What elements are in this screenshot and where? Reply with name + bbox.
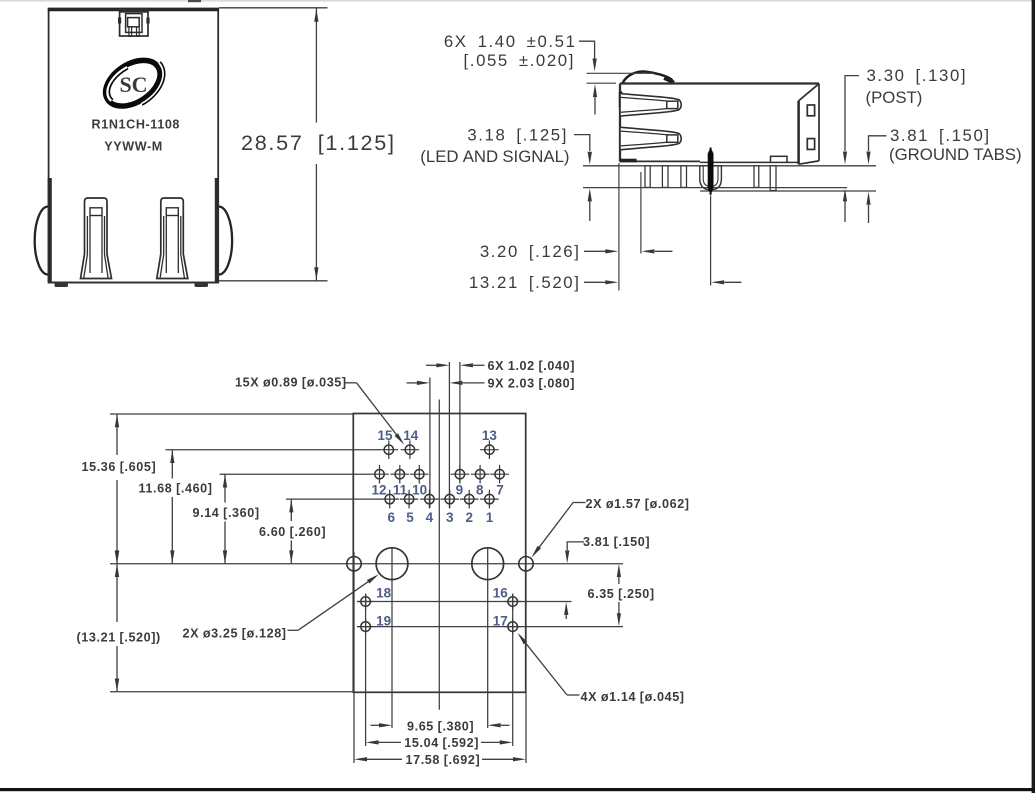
svg-text:YYWW-M: YYWW-M — [104, 139, 163, 153]
dim 6X 1.40 leader and arrows — [579, 41, 595, 58]
front view shield side ear right (arc) — [218, 207, 232, 275]
side view pin 3 — [681, 166, 687, 188]
front view shield side ear left (arc) — [35, 207, 49, 275]
side view body outline — [620, 84, 819, 165]
dim 13.21 arrows — [584, 281, 606, 283]
svg-text:6.60 [.260]: 6.60 [.260] — [259, 525, 326, 539]
svg-text:15.04 [.592]: 15.04 [.592] — [404, 736, 479, 750]
svg-text:17.58 [.692]: 17.58 [.692] — [406, 753, 481, 767]
row 19-17 line — [357, 626, 623, 628]
svg-text:(POST): (POST) — [866, 88, 923, 107]
pin16-17 column line — [512, 595, 514, 747]
svg-text:3.81 [.150]: 3.81 [.150] — [583, 535, 650, 549]
svg-text:19: 19 — [376, 614, 391, 629]
svg-text:3.20 [.126]: 3.20 [.126] — [480, 242, 581, 261]
front view top latch detail — [120, 9, 148, 37]
pin hole 16 (1.14) — [508, 597, 518, 607]
frame top edge line — [0, 0, 1035, 2]
dim 6X 1.40 lower arrow — [593, 84, 597, 97]
dim 3.30 lower arrow — [843, 188, 847, 201]
side view pin end line — [583, 187, 847, 189]
svg-text:6.35 [.250]: 6.35 [.250] — [588, 587, 655, 601]
side view shield top bump — [623, 72, 674, 84]
front view bottom edge — [49, 282, 219, 284]
side view ground tab pin — [770, 166, 776, 191]
dim 9X 2.03 arrows — [407, 382, 418, 384]
side view black post — [708, 148, 714, 195]
svg-text:3.30 [.130]: 3.30 [.130] — [867, 66, 968, 85]
side view pin 4 — [754, 166, 759, 188]
svg-text:13.21 [.520]: 13.21 [.520] — [469, 273, 581, 292]
svg-text:4: 4 — [426, 510, 434, 525]
hole 5 — [404, 494, 413, 503]
hole 7 — [495, 470, 504, 479]
hole 12 — [375, 470, 384, 479]
svg-text:14: 14 — [403, 428, 419, 443]
side view post centerline — [710, 196, 712, 286]
dim 3.81 lower arrow — [866, 192, 870, 205]
svg-text:SC: SC — [119, 72, 147, 97]
bottom extension line — [110, 691, 353, 693]
svg-text:3: 3 — [446, 510, 454, 525]
svg-text:2X ø1.57 [ø.062]: 2X ø1.57 [ø.062] — [586, 497, 690, 511]
svg-text:2: 2 — [465, 510, 473, 525]
side view ground tab end line — [700, 190, 876, 192]
dim 28.57 vertical dimension line — [315, 9, 317, 123]
pin hole 17 (1.14) — [508, 622, 518, 632]
svg-text:13: 13 — [482, 428, 498, 443]
dim 3.18 lower arrow — [588, 188, 592, 201]
svg-text:16: 16 — [493, 586, 509, 601]
side view latch finger lower — [621, 127, 681, 149]
svg-text:7: 7 — [496, 483, 504, 498]
dim 3.81 leader — [869, 136, 887, 151]
dim 28.57 extension line top — [219, 7, 328, 9]
svg-text:15.36 [.605]: 15.36 [.605] — [82, 460, 157, 474]
svg-text:11.68 [.460]: 11.68 [.460] — [139, 482, 213, 496]
dim 6X 1.02 arrows — [426, 364, 437, 366]
hole 14 — [405, 445, 414, 454]
hole 13 — [485, 445, 494, 454]
hole 3 — [445, 494, 454, 503]
dim 3.20 arrows — [584, 250, 606, 252]
svg-text:2X ø3.25 [ø.128]: 2X ø3.25 [ø.128] — [183, 627, 287, 641]
front view SC oval logo — [97, 48, 175, 119]
svg-text:15X ø0.89 [ø.035]: 15X ø0.89 [ø.035] — [235, 376, 347, 390]
svg-text:(13.21 [.520]): (13.21 [.520]) — [77, 631, 161, 645]
frame bottom border — [0, 788, 1035, 791]
svg-text:15: 15 — [377, 428, 393, 443]
hole 4 — [425, 494, 434, 503]
svg-text:8: 8 — [476, 483, 484, 498]
side view right panel slot upper — [807, 105, 814, 116]
hole 10 — [415, 470, 424, 479]
mounting hole left (3.25) — [376, 548, 408, 580]
svg-text:3.81 [.150]: 3.81 [.150] — [890, 126, 991, 145]
front view mounting leg left — [81, 198, 112, 279]
side view dark shield corner — [620, 159, 637, 163]
right side hole column line — [525, 552, 527, 763]
hole 8 — [475, 470, 484, 479]
row3 extension line — [286, 498, 381, 500]
row1 extension line — [166, 449, 381, 451]
row2 extension line — [220, 473, 371, 475]
right mounting hole column line — [487, 548, 489, 728]
mounting row line — [110, 563, 623, 565]
front view foot right — [195, 283, 209, 287]
centerline — [438, 400, 440, 710]
top extension line left — [110, 413, 353, 415]
svg-text:1: 1 — [486, 510, 494, 525]
side view extension line first pin — [640, 172, 642, 254]
dim 6X 1.40 extension lines — [587, 72, 656, 74]
svg-text:11: 11 — [393, 483, 408, 498]
row 18-16 line — [357, 601, 572, 603]
hole 3 column line — [448, 362, 450, 508]
dim (13.21) line — [116, 564, 118, 622]
dim 3.18 leader — [574, 135, 590, 151]
side view extension line body-left — [618, 163, 620, 291]
svg-text:12: 12 — [371, 483, 386, 498]
front view thick right shield edge — [215, 178, 219, 283]
svg-text:9.14 [.360]: 9.14 [.360] — [193, 506, 260, 520]
pin hole 18 (1.14) — [361, 597, 371, 607]
side hole left (1.57) — [347, 557, 361, 571]
hole 6 — [385, 494, 394, 503]
svg-text:6X 1.02 [.040]: 6X 1.02 [.040] — [488, 359, 576, 373]
svg-text:6: 6 — [388, 510, 396, 525]
pin hole 19 (1.14) — [361, 622, 371, 632]
hole 15 — [384, 445, 393, 454]
dim 3.30 leader — [845, 76, 859, 151]
dim 9.14 line — [224, 474, 226, 502]
frame right border — [1032, 0, 1035, 793]
left mounting hole column line — [391, 548, 393, 728]
front view foot left — [55, 283, 69, 287]
side view pin 2 — [662, 166, 668, 188]
dim 28.57 extension line bottom — [219, 280, 328, 282]
front view body outline — [49, 9, 219, 283]
pin18-19 column line — [365, 595, 367, 747]
svg-text:9: 9 — [456, 483, 464, 498]
side view post tab outline — [700, 166, 722, 190]
hole 4 column line — [429, 378, 431, 509]
svg-text:(GROUND TABS): (GROUND TABS) — [889, 145, 1022, 164]
side view latch finger upper — [621, 94, 681, 116]
svg-text:3.18 [.125]: 3.18 [.125] — [467, 125, 568, 144]
svg-text:28.57 [1.125]: 28.57 [1.125] — [241, 130, 396, 155]
hole 9 column line — [459, 362, 461, 484]
hole 1 — [485, 494, 494, 503]
mounting hole right (3.25) — [472, 548, 504, 580]
hole 9 — [455, 470, 464, 479]
svg-text:5: 5 — [406, 510, 414, 525]
front view thick left shield edge — [48, 178, 52, 283]
svg-text:R1N1CH-1108: R1N1CH-1108 — [92, 117, 181, 131]
side hole right (1.57) — [519, 557, 533, 571]
svg-text:10: 10 — [412, 483, 427, 498]
side view right panel slot lower — [807, 139, 814, 150]
svg-text:6X 1.40 ±0.51: 6X 1.40 ±0.51 — [444, 32, 577, 51]
front view mounting leg right — [157, 198, 188, 279]
svg-text:(LED AND SIGNAL): (LED AND SIGNAL) — [420, 147, 569, 166]
left side hole column line — [353, 552, 355, 763]
side view seating plane line — [583, 165, 876, 167]
hole 2 — [465, 494, 474, 503]
dim 6.60 line — [290, 499, 292, 521]
svg-text:9.65 [.380]: 9.65 [.380] — [407, 720, 474, 734]
side view pin 1 — [645, 166, 650, 188]
svg-text:18: 18 — [376, 586, 392, 601]
hole 11 — [395, 470, 404, 479]
svg-text:[.055 ±.020]: [.055 ±.020] — [464, 51, 575, 70]
bottom view board outline — [353, 414, 525, 693]
svg-text:17: 17 — [493, 614, 508, 629]
svg-text:4X ø1.14 [ø.045]: 4X ø1.14 [ø.045] — [581, 690, 685, 704]
dim 11.68 line — [171, 450, 173, 479]
dim 15.36 line — [116, 414, 118, 455]
svg-text:9X 2.03 [.080]: 9X 2.03 [.080] — [488, 377, 576, 391]
